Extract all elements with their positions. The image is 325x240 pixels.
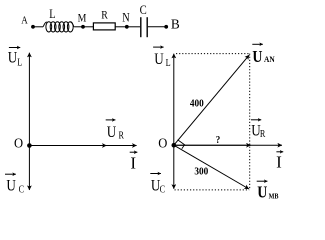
resistor R body (93, 23, 115, 30)
svg-text:R: R (119, 130, 125, 141)
right diagram: vector UMB 300 (174, 145, 249, 189)
right diagram: origin dot (172, 143, 177, 148)
svg-text:C: C (140, 2, 147, 17)
svg-text:O: O (158, 135, 167, 151)
svg-text:AN: AN (264, 55, 275, 64)
left diagram: I axis right (29, 145, 136, 147)
svg-text:U: U (252, 48, 262, 67)
right diagram: dashed bottom edge (175, 189, 250, 191)
svg-text:R: R (260, 128, 266, 139)
svg-text:U: U (107, 124, 117, 141)
wire M to resistor (83, 26, 93, 28)
svg-text:B: B (171, 16, 180, 31)
svg-text:C: C (160, 184, 165, 195)
wire resistor to N (115, 26, 127, 28)
svg-text:U: U (6, 177, 16, 194)
svg-text:M: M (78, 11, 87, 24)
left diagram: label UL (8, 48, 23, 68)
svg-text:U: U (257, 183, 267, 202)
right diagram: dashed top edge (176, 53, 250, 55)
node A dot (31, 25, 35, 29)
svg-text:MB: MB (269, 193, 279, 201)
svg-text:I: I (276, 153, 282, 172)
svg-text:A: A (21, 15, 28, 27)
svg-text:N: N (122, 11, 129, 24)
capacitor C plates (141, 17, 147, 37)
right diagram: angle arc at origin (178, 140, 185, 149)
svg-text:L: L (49, 8, 55, 21)
wire inductor to M (74, 26, 83, 28)
right diagram: UC axis down (173, 145, 175, 189)
left diagram: label UR (106, 120, 125, 141)
right diagram: label UR (251, 120, 266, 140)
left diagram: label UC (5, 174, 24, 195)
svg-text:?: ? (216, 136, 221, 147)
right diagram: UL axis up (173, 54, 175, 146)
svg-text:C: C (19, 184, 24, 195)
left diagram: origin dot (27, 143, 32, 148)
node N dot (125, 25, 129, 29)
left diagram: UL axis up (28, 53, 30, 146)
right diagram: label UC (150, 174, 165, 195)
svg-text:L: L (166, 57, 171, 68)
right diagram: label UAN (252, 44, 275, 66)
left diagram: label I (130, 152, 138, 172)
node B dot (164, 25, 168, 29)
svg-text:300: 300 (194, 166, 208, 178)
svg-text:U: U (8, 49, 18, 66)
wire N to capacitor (127, 26, 140, 28)
wire capacitor to B (148, 26, 166, 28)
inductor L coil (43, 22, 75, 32)
right diagram: dashed right edge (249, 54, 251, 190)
right diagram: I axis right (174, 144, 282, 146)
svg-text:I: I (130, 153, 136, 172)
svg-text:O: O (14, 135, 23, 151)
svg-text:400: 400 (190, 98, 204, 110)
svg-text:U: U (154, 51, 164, 68)
left diagram: UR vector arrowhead (29, 145, 106, 147)
svg-text:R: R (101, 9, 108, 22)
right diagram: label UMB (257, 181, 279, 201)
right diagram: label UL (153, 47, 171, 68)
right diagram: vector UAN 400 (174, 55, 250, 145)
left diagram: UC axis down (28, 146, 30, 191)
wire A to inductor (33, 26, 43, 28)
svg-text:L: L (17, 57, 22, 68)
right diagram: label I (276, 152, 283, 172)
node M dot (81, 25, 85, 29)
right diagram: UR vector arrowhead (174, 144, 251, 146)
